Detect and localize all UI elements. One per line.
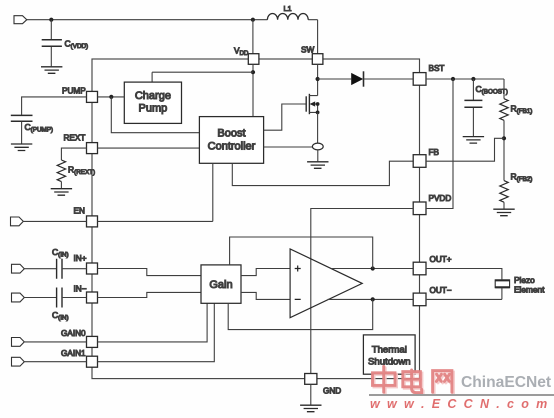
wire: GAIN0 terminal to pin (24, 341, 86, 343)
wire: gain out- to op-amp (241, 292, 290, 299)
svg-text:PVDD: PVDD (429, 194, 452, 203)
wire: feedback OUT- to gain bottom (228, 299, 373, 329)
connector: VDD supply input terminal (14, 16, 27, 24)
diode D1 (351, 73, 363, 85)
block: Charge Pump (124, 82, 181, 123)
svg-text:Shutdown: Shutdown (368, 357, 411, 368)
wire: PVDD internal supply drop to GND (311, 209, 413, 374)
ground (C(PUMP)) (11, 144, 32, 151)
svg-text:REXT: REXT (64, 134, 86, 143)
svg-text:OUT−: OUT− (430, 286, 452, 295)
op-amp U1 (class-D output amp) (290, 249, 362, 318)
wire: piezo to OUT- (426, 288, 502, 300)
pin OUT+ (413, 262, 426, 275)
wire: GAIN0 to gain block (98, 303, 208, 342)
svg-text:Boost: Boost (217, 128, 245, 140)
resistor R(FB1) (500, 99, 508, 121)
svg-text:Thermal: Thermal (372, 345, 407, 356)
wire: cap to IN- pin (63, 297, 87, 299)
resistor R(FB2) (500, 181, 508, 203)
node: junction BST / PVDD feed (451, 77, 455, 81)
watermark: ChinaECNet (461, 374, 551, 392)
wire: GAIN1 to gain block (98, 303, 215, 361)
pin EN (87, 216, 98, 227)
svg-text:IN+: IN+ (74, 254, 87, 263)
wire: pump net to boost controller (111, 97, 199, 133)
svg-text:PUMP: PUMP (62, 87, 86, 96)
wire: feedback divider middle (503, 120, 505, 180)
wire: PVDD to BST rail (426, 79, 453, 209)
svg-text:C(BOOST): C(BOOST) (476, 84, 508, 96)
transistor Q1 (boost NMOS) (305, 96, 307, 111)
wire: EN pin to boost controller (98, 163, 213, 221)
svg-text:Element: Element (514, 284, 545, 294)
current sense element (312, 143, 323, 150)
connector: IN- input terminal (12, 293, 25, 302)
capacitor C(PUMP) (11, 115, 33, 121)
wire: OUT- internal (328, 298, 414, 300)
svg-text:EN: EN (74, 207, 85, 216)
pin PVDD (413, 202, 426, 215)
svg-text:C(IN): C(IN) (52, 247, 69, 259)
ground (C(BOOST)) (463, 137, 484, 144)
wire: PUMP to charge pump (98, 96, 125, 98)
wire: GND pin to ground (310, 384, 312, 405)
svg-text:Controller: Controller (208, 141, 256, 153)
pin VDD (248, 54, 259, 65)
wire: boost FB sense internal (232, 161, 413, 185)
wire: source to sense ellipse (317, 112, 319, 143)
wire: charge pump top feed (152, 72, 253, 82)
pin IN- (87, 292, 98, 303)
svg-text:GND: GND (323, 387, 341, 396)
wire: feedback OUT+ to gain top (230, 237, 373, 269)
wire: BST output rail (426, 78, 504, 80)
wire: IN+ internal to gain (98, 269, 202, 276)
svg-text:R(REXT): R(REXT) (68, 165, 95, 177)
pin OUT- (413, 293, 426, 306)
svg-text:Charge: Charge (135, 90, 171, 102)
wire: diode to BST pin (364, 78, 414, 80)
capacitor C(IN) bottom (57, 288, 62, 308)
wire: REXT to boost controller (98, 147, 200, 149)
node: switch node junction (316, 77, 320, 81)
svg-text:OUT+: OUT+ (430, 255, 452, 264)
ground (C(VDD)) (41, 67, 62, 74)
node: junction OUT- feedback (371, 297, 375, 301)
wire: FB pin to divider junction (426, 138, 504, 161)
watermark: www.ECCN.com (370, 397, 549, 411)
pin GND (305, 374, 317, 385)
svg-text:SW: SW (301, 46, 314, 55)
wire: OUT+ to piezo (426, 269, 502, 280)
wire: cap to IN+ pin (63, 268, 87, 270)
wire: EN terminal to pin (23, 220, 86, 222)
wire: C(BOOST) branch (472, 79, 474, 100)
wire: boost current sense (264, 146, 313, 148)
block: Boost Controller (199, 117, 263, 164)
ground (power NMOS source) (307, 162, 328, 169)
wire: L1 to SW pin (317, 20, 319, 54)
wire: REXT to R(REXT) (61, 148, 86, 160)
watermark: rule line (369, 394, 554, 396)
node: junction VDD internal / charge pump feed (251, 70, 255, 74)
node: junction BST / C(BOOST) (471, 77, 475, 81)
pin BST (413, 73, 426, 86)
svg-text:IN−: IN− (74, 285, 87, 294)
connector: IN+ input terminal (12, 264, 25, 273)
wire: IN+ terminal to cap (24, 268, 56, 270)
node: junction OUT+ feedback (371, 266, 375, 270)
svg-text:GAIN0: GAIN0 (61, 329, 86, 338)
capacitor C(VDD) (42, 40, 62, 46)
pin PUMP (87, 91, 98, 102)
wire: VDD rail to VDD pin (252, 20, 254, 54)
inductor L1 (267, 13, 308, 19)
wire: C(VDD) branch down (50, 20, 52, 40)
node: junction PUMP / boost controller feed (109, 95, 113, 99)
pin SW (312, 54, 323, 65)
svg-text:C(VDD): C(VDD) (65, 39, 89, 51)
svg-text:GAIN1: GAIN1 (61, 349, 86, 358)
piezo element load (495, 280, 509, 288)
wire: boost gate drive (264, 104, 307, 130)
block: Gain (201, 265, 241, 303)
svg-text:C(PUMP): C(PUMP) (25, 122, 54, 134)
node: junction VDD rail / C(VDD) (49, 18, 53, 22)
wire: IN- internal to gain (98, 292, 202, 297)
capacitor C(BOOST) (464, 100, 482, 107)
wire: SW pin to switch node (317, 64, 319, 79)
ground (R(REXT)) (51, 189, 72, 196)
capacitor C(IN) top (57, 259, 62, 279)
wire: VDD pin internal drop to Boost Controller (252, 64, 254, 116)
wire: OUT+ internal (332, 268, 413, 270)
svg-text:FB: FB (429, 148, 440, 157)
wire: IN- terminal to cap (24, 297, 56, 299)
wire: switch node to diode (318, 78, 352, 80)
connector: EN input terminal (11, 217, 24, 226)
svg-text:Gain: Gain (209, 279, 232, 291)
svg-text:R(FB1): R(FB1) (511, 104, 533, 116)
node: junction FB divider (502, 136, 506, 140)
wire: BST rail corner down to R(FB1) (503, 79, 505, 99)
connector: GAIN0 input terminal (12, 338, 25, 347)
watermark: zhong-dian-wang logo (drawn glyphs) (374, 368, 453, 394)
svg-text:BST: BST (429, 64, 445, 73)
wire: gain out+ to op-amp (241, 269, 290, 276)
ground (R(FB2)) (493, 209, 514, 216)
block: Thermal Shutdown (363, 335, 415, 374)
wire: VDD input rail (top) (27, 19, 318, 21)
ground (GND pin) (300, 405, 321, 412)
pin REXT (87, 143, 98, 154)
svg-text:Pump: Pump (139, 103, 168, 115)
svg-text:C(IN): C(IN) (52, 310, 69, 322)
pin FB (413, 155, 426, 168)
wire: GAIN1 terminal to pin (24, 361, 86, 363)
wire: PUMP to C(PUMP) (22, 97, 87, 115)
resistor R(REXT) (57, 160, 65, 182)
pin GAIN0 (87, 336, 98, 347)
pin GAIN1 (87, 356, 98, 367)
connector: GAIN1 input terminal (12, 357, 25, 366)
pin IN+ (87, 263, 98, 274)
node: junction VDD rail / VDD pin (251, 18, 255, 22)
IC package outline (92, 59, 420, 379)
svg-text:L1: L1 (284, 4, 292, 13)
svg-text:R(FB2): R(FB2) (511, 172, 533, 184)
svg-text:VDD: VDD (234, 47, 249, 58)
